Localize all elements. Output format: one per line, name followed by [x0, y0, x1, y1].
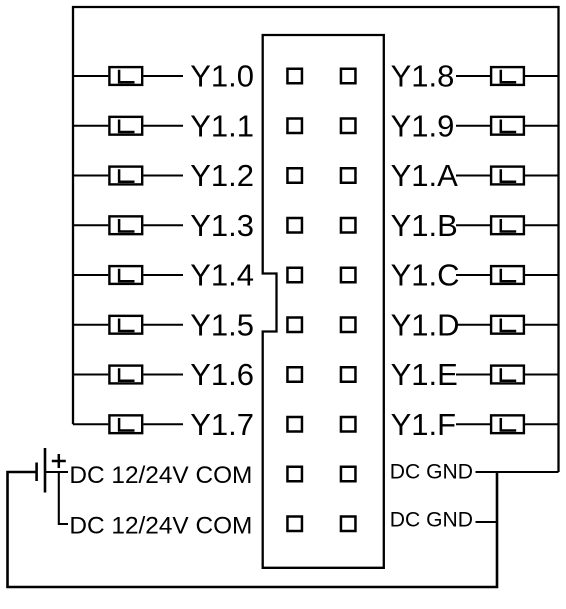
svg-text:Y1.C: Y1.C	[391, 258, 460, 293]
svg-text:Y1.7: Y1.7	[190, 407, 254, 442]
svg-text:Y1.B: Y1.B	[391, 208, 458, 243]
svg-text:Y1.F: Y1.F	[391, 407, 456, 442]
svg-text:Y1.4: Y1.4	[190, 258, 254, 293]
svg-text:Y1.9: Y1.9	[391, 108, 455, 143]
svg-text:Y1.6: Y1.6	[190, 357, 254, 392]
svg-text:Y1.1: Y1.1	[190, 108, 254, 143]
svg-text:Y1.D: Y1.D	[391, 307, 460, 342]
svg-text:DC GND: DC GND	[390, 461, 473, 484]
svg-text:Y1.A: Y1.A	[391, 158, 459, 193]
svg-text:DC GND: DC GND	[390, 509, 473, 532]
svg-text:Y1.0: Y1.0	[190, 59, 254, 94]
svg-text:DC 12/24V COM: DC 12/24V COM	[69, 513, 252, 540]
svg-text:Y1.8: Y1.8	[391, 59, 455, 94]
svg-text:DC 12/24V COM: DC 12/24V COM	[69, 462, 252, 489]
svg-text:Y1.5: Y1.5	[190, 307, 254, 342]
svg-text:Y1.2: Y1.2	[190, 158, 254, 193]
svg-text:Y1.E: Y1.E	[391, 357, 458, 392]
svg-text:Y1.3: Y1.3	[190, 208, 254, 243]
